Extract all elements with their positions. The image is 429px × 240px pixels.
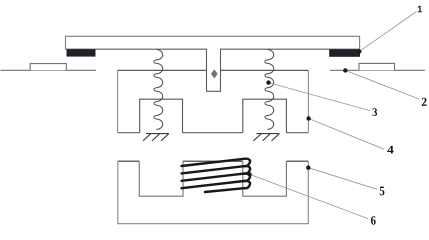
core E2 (bottom) top edges (118, 160, 308, 162)
winding L1 (left coil) (154, 50, 163, 130)
leader 5 (308, 168, 377, 190)
air gap diamond (211, 69, 218, 78)
pad left (30, 64, 66, 71)
leader 1 (360, 12, 417, 52)
ground plane right (330, 69, 425, 71)
ground plane left (1, 69, 97, 71)
core E1 top edge left (118, 69, 207, 71)
core E2 right notch (243, 161, 287, 196)
pad right (359, 63, 395, 70)
leader 6 (250, 174, 369, 218)
node dot 1 (357, 49, 361, 53)
label 5 (380, 187, 385, 196)
metallization left (black) (67, 49, 96, 56)
ground symbol right (254, 134, 280, 141)
leader 4 (309, 119, 385, 150)
core E1 right notch (243, 99, 287, 133)
PCB bar U1 (66, 36, 360, 49)
label 3 (373, 108, 378, 116)
label 6 (371, 216, 376, 225)
core E2 outer edges (118, 161, 308, 224)
metallization right (black) (329, 49, 360, 57)
leader 3 (269, 83, 371, 111)
core E1 left notch (140, 99, 183, 133)
label 1 (418, 6, 422, 13)
node dot 4 (306, 116, 310, 120)
core E1 bottom edges (118, 132, 309, 134)
node dot 2 (343, 68, 347, 72)
core E1 right edge (307, 70, 309, 132)
leader 2 (345, 70, 419, 99)
label 4 (387, 146, 393, 154)
label 2 (422, 98, 427, 106)
node dot 3 (266, 80, 270, 84)
core E1 top edge right (221, 69, 309, 71)
core E2 left notch (139, 161, 183, 196)
winding W1 (bottom coil) turns (182, 159, 251, 192)
ground symbol left (143, 134, 169, 141)
winding L2 (right coil) (265, 50, 274, 130)
PCB bar bottom edge with center tongue (66, 49, 360, 91)
node dot 5 (306, 166, 310, 170)
node dot 6 (247, 172, 251, 176)
core E1 left edge (117, 70, 119, 132)
